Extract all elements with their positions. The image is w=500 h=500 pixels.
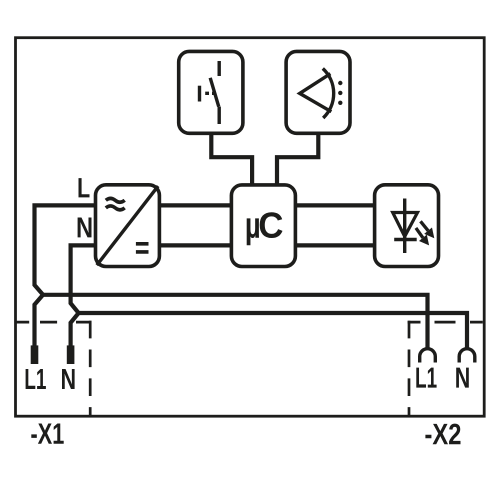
device enclosure <box>16 38 485 417</box>
LED triangle <box>393 213 418 237</box>
LED anode lead <box>403 199 406 254</box>
terminal pin L1 (-X1) <box>31 345 39 364</box>
AC symbol (double tilde) <box>106 198 125 209</box>
terminal pin N (-X1) <box>67 345 75 364</box>
LED output block <box>375 185 439 267</box>
wire: L input from terminal to power supply <box>35 205 97 345</box>
wire: N bus to -X2 <box>79 313 467 350</box>
socket terminal L1 (-X2) <box>420 349 436 363</box>
wire: power supply to microcontroller (upper) <box>159 203 232 207</box>
sensor arc <box>323 69 334 119</box>
sensor angle rays <box>300 74 332 112</box>
wire: light sensor block to microcontroller <box>277 133 318 185</box>
label N (-X2) <box>456 368 469 388</box>
sensor dot 1 <box>338 81 342 85</box>
LED emission arrow 1 <box>421 221 429 230</box>
terminal area -X2 (dashed) <box>408 321 483 324</box>
wire: push-button block to microcontroller <box>211 133 252 185</box>
wire: microcontroller to LED block (lower) <box>295 243 375 247</box>
wire: power supply to microcontroller (lower) <box>159 243 232 247</box>
label -X2 <box>425 424 460 445</box>
push-button actuator bar <box>198 86 201 102</box>
label µC <box>247 218 259 245</box>
light sensor block B1 <box>286 51 350 133</box>
wire: L1 bus to -X2 <box>43 295 428 350</box>
wire: N input from terminal to power supply <box>71 245 96 345</box>
wire: microcontroller to LED block (upper) <box>295 203 375 207</box>
label N <box>78 217 92 237</box>
power supply diagonal <box>97 186 158 265</box>
sensor dot 3 <box>338 101 342 105</box>
microcontroller U1 <box>231 185 295 267</box>
label L1 (-X1) <box>26 369 46 389</box>
label L <box>79 178 90 197</box>
DC symbol (double bar) <box>136 244 149 252</box>
switch contact lower lead <box>217 107 220 125</box>
label L1 (-X2) <box>416 368 436 388</box>
push-button actuator link (dashed) <box>205 92 215 95</box>
push-button block S1 <box>179 51 243 133</box>
socket terminal N (-X2) <box>459 349 475 363</box>
power supply unit (AC/DC converter) <box>96 185 160 267</box>
switch lever <box>210 78 219 107</box>
sensor dot 2 <box>338 91 342 95</box>
LED emission arrow 2 <box>416 228 423 238</box>
terminal area -X1 (dashed) <box>16 321 92 324</box>
switch contact upper lead <box>217 61 220 76</box>
LED cathode bar <box>394 238 417 242</box>
label -X1 <box>31 424 63 444</box>
label N (-X1) <box>62 369 75 389</box>
